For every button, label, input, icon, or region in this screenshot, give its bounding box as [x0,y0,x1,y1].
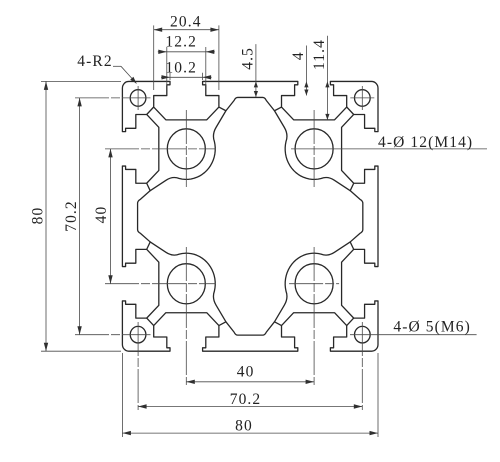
dimension: 80 (left) [41,80,121,82]
centreline: bottom-right hole vertical / extension for 40 [313,247,315,385]
leader: 4-Phi5(M6) [350,334,477,336]
svg-text:4-R2: 4-R2 [77,53,112,70]
bottom-right boss web outline [274,242,353,326]
profile outer boundary with 8 T-slots [122,81,378,351]
centreline: top-right hole vertical [313,110,315,187]
large hole top-left (Phi12 M14) [167,129,205,169]
corner hole bottom-left (Phi5 M6) [130,326,146,343]
dimension: 4.5 [255,44,257,97]
centreline: top-left hole vertical [185,110,187,187]
centreline: top-left corner hole horizontal / extension for 70.2 [75,97,151,99]
svg-text:4-Ø 5(M6): 4-Ø 5(M6) [393,319,471,336]
dimension: 40 (left) [110,149,112,284]
leader: 4-R2 [113,65,121,67]
top-right boss web outline [274,107,353,191]
svg-text:4.5: 4.5 [240,47,257,70]
centreline: bottom-left corner hole vertical / extension for bottom 70.2 [137,322,139,410]
dimension: 70.2 (left) [79,98,81,335]
centreline: bottom-left hole vertical / extension for 40 [185,247,187,385]
centreline: top-left corner hole vertical [137,86,139,110]
svg-text:70.2: 70.2 [63,200,80,232]
dimension: 4 [305,46,307,96]
large hole bottom-left (Phi12 M14) [167,264,205,304]
dimension: 70.2 (bottom) [138,406,362,408]
svg-text:4-Ø 12(M14): 4-Ø 12(M14) [378,134,473,151]
corner hole top-right (Phi5 M6) [355,90,371,107]
leader: 4-Phi12(M14) [291,148,487,150]
bottom face centre cavity ceiling [226,322,275,335]
dimension: 10.2 [169,73,171,80]
centreline: top-left hole horizontal / extension for 40 [105,148,216,150]
corner hole top-left (Phi5 M6) [130,90,146,107]
dimension: 80 (bottom) [121,353,123,437]
corner hole bottom-right (Phi5 M6) [355,326,371,343]
svg-text:80: 80 [29,207,46,225]
bottom-left corner cavity wall [147,318,154,326]
centreline: top-right corner hole horizontal [350,97,374,99]
svg-text:12.2: 12.2 [165,34,197,51]
large hole bottom-right (Phi12 M14) [295,264,333,304]
dimension: 20.4 [153,25,155,90]
centreline: bottom-right corner hole vertical / extension for bottom 70.2 [361,322,363,410]
centreline: top-right corner hole vertical [361,86,363,110]
svg-text:70.2: 70.2 [230,391,262,408]
centreline: bottom-left corner hole horizontal / extension for 70.2 [75,334,151,336]
top face centre cavity ceiling [226,97,275,110]
dimension: 12.2 [166,47,168,86]
svg-text:11.4: 11.4 [311,39,328,70]
svg-text:40: 40 [237,363,255,380]
svg-text:80: 80 [235,418,253,435]
top-right corner cavity wall [347,107,354,115]
centreline: bottom-right hole horizontal [289,283,339,285]
bottom-right corner cavity wall [347,318,354,326]
svg-text:40: 40 [93,206,110,224]
left face centre cavity ceiling [138,191,151,242]
right face centre cavity ceiling [350,191,363,242]
svg-text:20.4: 20.4 [170,14,202,31]
centreline: bottom-left hole horizontal / extension for 40 [105,283,216,285]
dimension: 11.4 [326,36,328,120]
dimension: 40 (bottom) [186,381,314,383]
top-left boss web outline [147,107,226,191]
svg-text:4: 4 [290,51,307,60]
top-left corner cavity wall [147,107,154,115]
bottom-left boss web outline [147,242,226,326]
svg-text:10.2: 10.2 [165,60,197,77]
large hole top-right (Phi12 M14) [295,129,333,169]
